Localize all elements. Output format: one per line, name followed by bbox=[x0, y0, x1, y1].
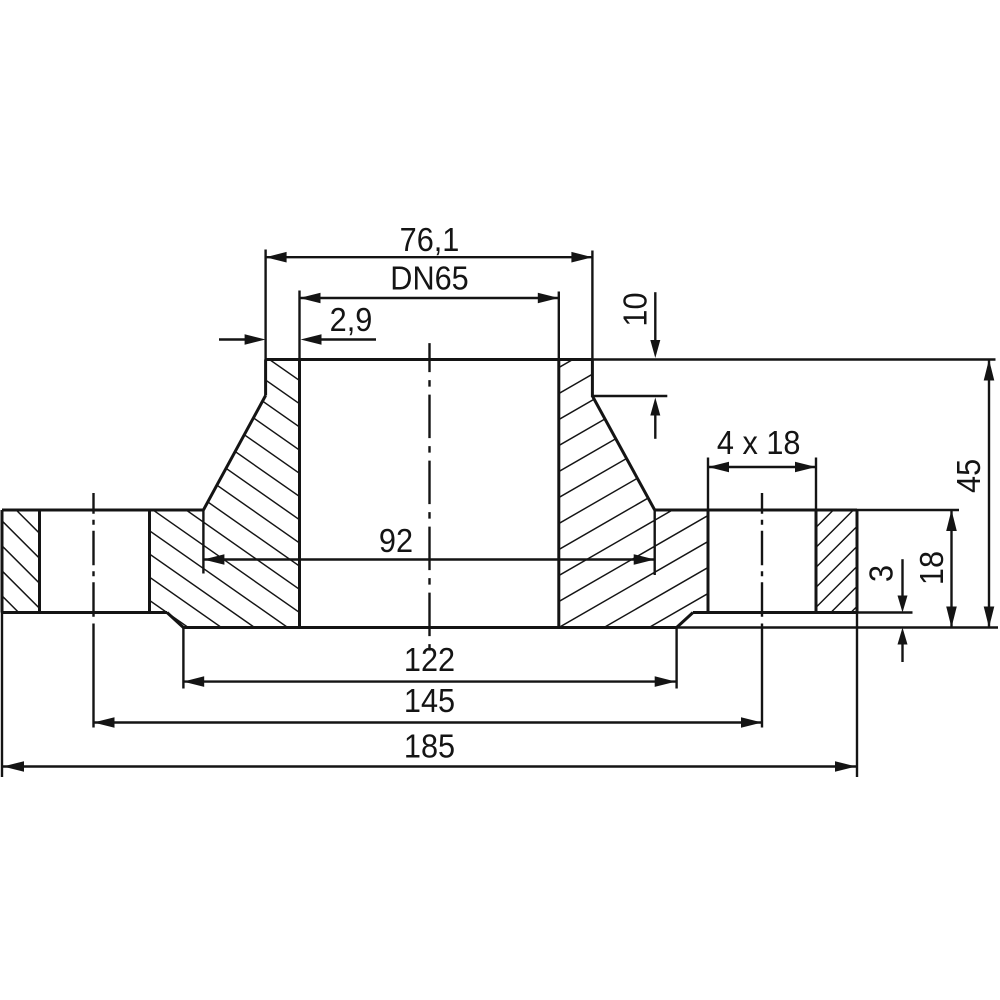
dimension 185 (flange diameter) bbox=[3, 765, 856, 767]
plate top extension (18 dim) bbox=[857, 509, 959, 511]
plate left edge extension (185 dim) bbox=[1, 613, 3, 778]
svg-text:3: 3 bbox=[863, 565, 900, 582]
bolt hole right: right edge bbox=[815, 510, 818, 613]
dimension 4 x 18 (bolt holes) bbox=[707, 458, 709, 513]
hub step tick (10 dim lower reference) bbox=[592, 395, 667, 397]
top face extension line (45 dim) bbox=[592, 358, 995, 360]
svg-text:10: 10 bbox=[616, 292, 653, 326]
bolt hole left: right edge bbox=[148, 510, 151, 613]
svg-text:DN65: DN65 bbox=[390, 260, 468, 297]
svg-text:18: 18 bbox=[913, 551, 950, 585]
dimension 2,9 (wall thickness) bbox=[219, 338, 246, 340]
dimension DN65 (nominal bore) bbox=[298, 291, 300, 360]
neck outer wall left bbox=[264, 360, 267, 396]
plate right edge extension (185 dim) bbox=[856, 613, 858, 778]
neck outer wall right bbox=[591, 360, 594, 398]
bore wall right bbox=[557, 360, 560, 628]
hatch region C (right hub/neck section) bbox=[554, 227, 713, 709]
dimension 45 (overall height) bbox=[988, 360, 990, 628]
raised face bottom bbox=[183, 626, 676, 629]
neck taper left bbox=[203, 396, 265, 511]
plate bottom left bbox=[2, 611, 167, 614]
bore wall left bbox=[298, 360, 301, 628]
neck top face edge bbox=[266, 358, 593, 361]
hatch region D (right rim section) bbox=[811, 441, 862, 672]
dimension 10 (pipe end height) bbox=[654, 292, 656, 341]
plate top face left bbox=[2, 509, 203, 512]
hatch region B (left hub/neck section) bbox=[145, 226, 305, 732]
main axis centerline bbox=[428, 343, 430, 651]
bolt hole right: left edge bbox=[707, 510, 710, 613]
svg-text:2,9: 2,9 bbox=[330, 301, 373, 338]
bolt hole left: left edge bbox=[38, 510, 41, 613]
bolt hole centerline left bbox=[92, 493, 94, 618]
svg-text:122: 122 bbox=[404, 641, 455, 678]
dimension 122 (raised face diameter) bbox=[182, 628, 184, 689]
hatch region A (left rim section) bbox=[0, 441, 45, 664]
raised face chamfer right bbox=[677, 613, 693, 628]
plate bottom extension (3 dim) bbox=[857, 611, 913, 613]
svg-text:45: 45 bbox=[950, 459, 987, 493]
dimension 145 (bolt circle diameter) bbox=[94, 721, 763, 723]
svg-text:76,1: 76,1 bbox=[400, 221, 460, 258]
plate right edge bbox=[856, 510, 859, 613]
svg-text:185: 185 bbox=[404, 727, 455, 764]
plate left edge bbox=[1, 510, 4, 613]
plate bottom right bbox=[693, 611, 857, 614]
dimension 76,1 (pipe OD) bbox=[264, 250, 266, 360]
plate top face right bbox=[655, 509, 857, 512]
dimension 3 (raised face height) bbox=[901, 559, 903, 596]
raised face extension (45/18 dims) bbox=[677, 626, 998, 628]
bolt hole centerline right bbox=[761, 493, 763, 618]
dimension 92 (hub base diameter) bbox=[202, 510, 204, 574]
svg-text:145: 145 bbox=[404, 682, 455, 719]
dimension 18 (plate thickness) bbox=[950, 510, 952, 628]
svg-text:4 x 18: 4 x 18 bbox=[717, 424, 801, 461]
svg-text:92: 92 bbox=[379, 522, 413, 559]
raised face chamfer left bbox=[167, 613, 183, 628]
neck taper right bbox=[592, 396, 654, 510]
